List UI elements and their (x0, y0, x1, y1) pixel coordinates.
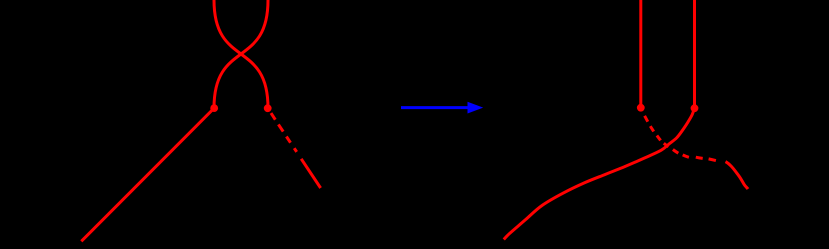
wire: dashed (hidden) strand from left vertex crossing behind, drawn as dash segments (645, 116, 716, 161)
right figure: right vertical strand (693, 0, 696, 108)
right figure: left vertical strand (639, 0, 642, 108)
wire: solid leg from left vertex to bottom-left (81, 108, 214, 241)
wire: solid end of right leg (301, 159, 320, 188)
arrow (blue, pointing right) (401, 102, 483, 114)
node: right vertex dot of left figure (264, 104, 272, 112)
wire: solid curling end of hidden strand (726, 162, 749, 189)
node: right vertex dot of right figure (691, 104, 699, 112)
wire: dashed (hidden) leg from right vertex, drawn as dash segments (271, 113, 297, 152)
node: left vertex dot of right figure (637, 104, 645, 112)
node: left vertex dot of left figure (210, 104, 218, 112)
left figure: crossing strand from top-left to right vertex (214, 0, 268, 108)
wire: big solid sweeping strand from right vertex to bottom-left (504, 108, 695, 240)
left figure: crossing strand from top-right to left vertex (214, 0, 268, 108)
